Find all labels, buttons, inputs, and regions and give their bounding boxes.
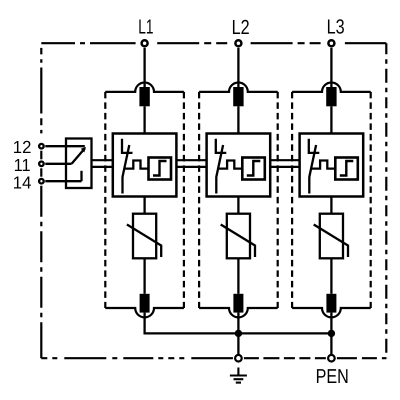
svg-text:L2: L2	[232, 17, 250, 39]
svg-text:L3: L3	[327, 17, 345, 39]
svg-text:PEN: PEN	[316, 366, 349, 388]
svg-text:14: 14	[13, 173, 32, 193]
svg-text:L1: L1	[138, 17, 153, 39]
svg-text:12: 12	[13, 137, 32, 157]
